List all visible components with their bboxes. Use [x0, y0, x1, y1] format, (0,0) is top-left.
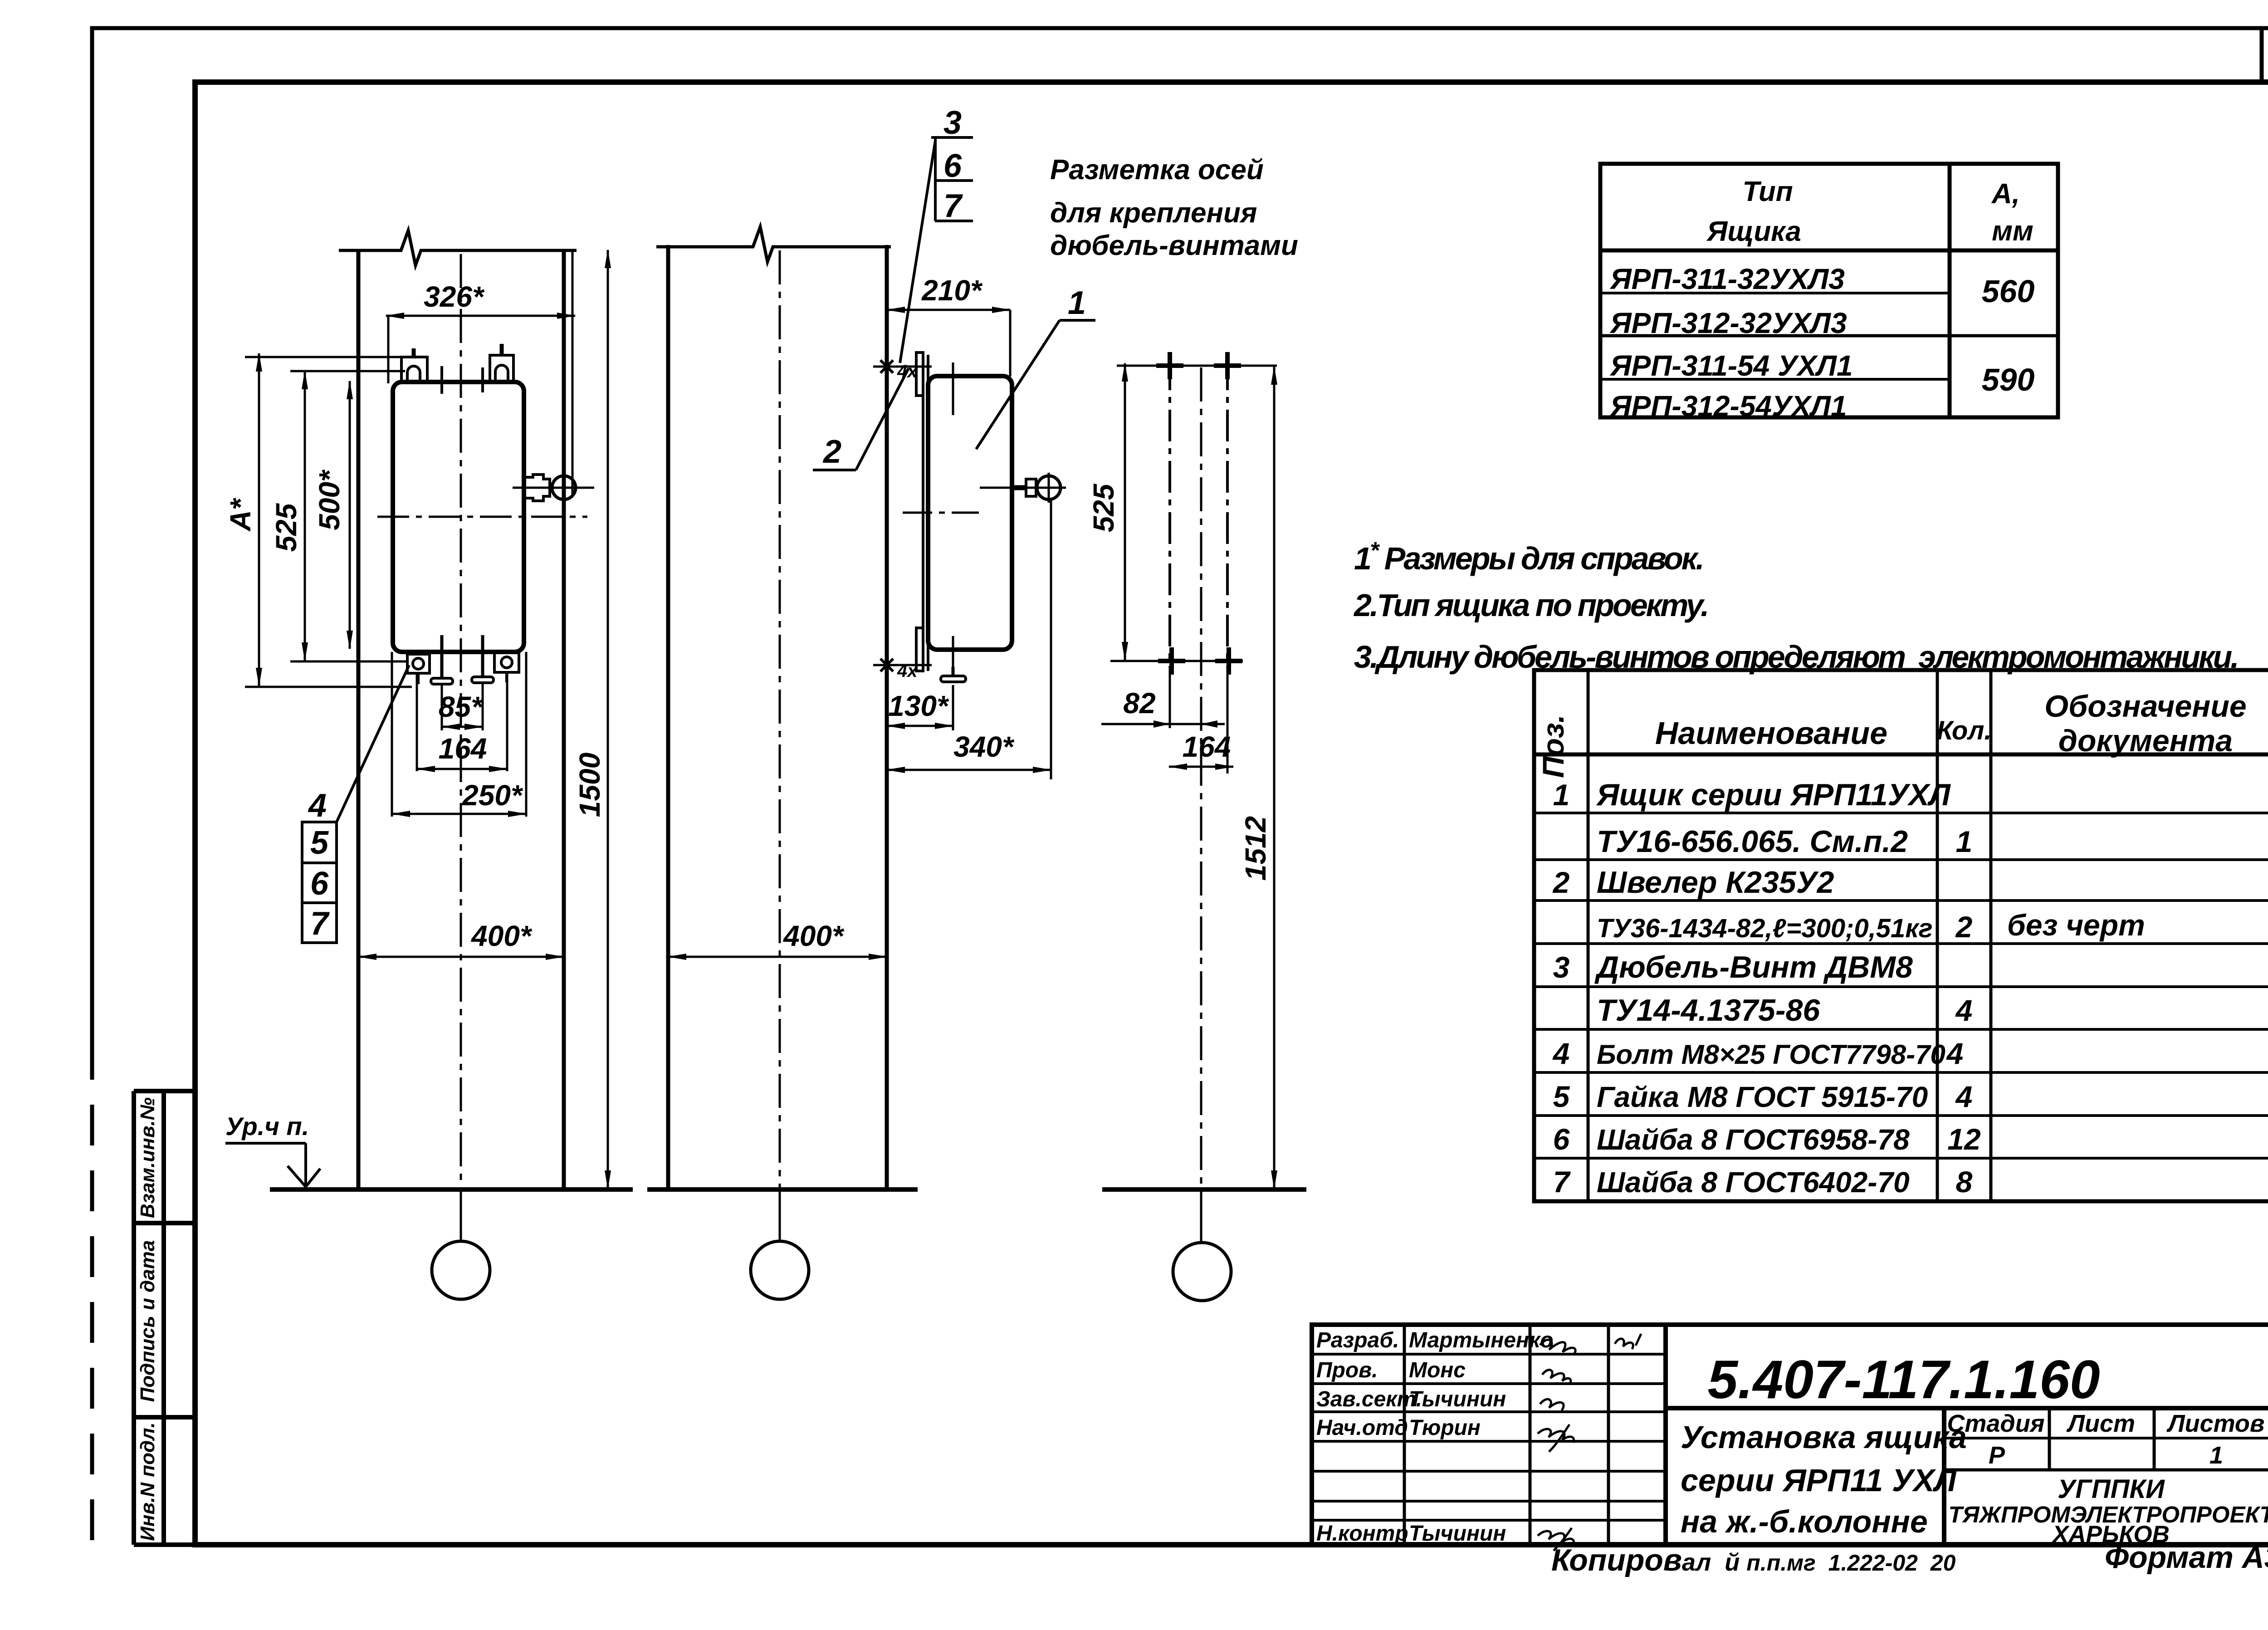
- svg-text:12: 12: [1947, 1122, 1981, 1156]
- svg-text:Подпись и дата: Подпись и дата: [137, 1240, 159, 1402]
- svg-text:3: 3: [1553, 950, 1570, 984]
- svg-text:7: 7: [943, 188, 963, 224]
- svg-text:400*: 400*: [470, 920, 533, 952]
- svg-text:2: 2: [1552, 866, 1570, 899]
- svg-text:Монс: Монс: [1409, 1358, 1466, 1382]
- svg-text:Установка ящика: Установка ящика: [1681, 1420, 1967, 1455]
- svg-text:Ящик серии ЯРП11УХЛ: Ящик серии ЯРП11УХЛ: [1596, 778, 1951, 812]
- svg-text:Листов: Листов: [2166, 1410, 2264, 1437]
- svg-text:ЯРП-311-54 УХЛ1: ЯРП-311-54 УХЛ1: [1609, 349, 1853, 382]
- svg-text:5: 5: [310, 825, 329, 861]
- svg-text:УГППКИ: УГППКИ: [2058, 1474, 2165, 1504]
- svg-text:6: 6: [1553, 1122, 1570, 1156]
- svg-text:Тюрин: Тюрин: [1409, 1416, 1481, 1440]
- svg-text:Мартыненко: Мартыненко: [1409, 1328, 1554, 1352]
- svg-text:3: 3: [943, 105, 962, 141]
- svg-text:500*: 500*: [313, 469, 346, 530]
- svg-text:Швелер К235У2: Швелер К235У2: [1597, 865, 1834, 900]
- svg-text:Нач.отд: Нач.отд: [1316, 1416, 1408, 1440]
- svg-text:Шайба 8 ГОСТ6402-70: Шайба 8 ГОСТ6402-70: [1597, 1166, 1910, 1199]
- svg-text:85*: 85*: [439, 690, 484, 723]
- svg-text:4: 4: [1955, 994, 1973, 1027]
- svg-text:Наименование: Наименование: [1655, 715, 1887, 751]
- svg-text:4: 4: [1946, 1037, 1964, 1070]
- svg-text:Н.контр: Н.контр: [1316, 1522, 1408, 1546]
- svg-text:5.407-117.1.160: 5.407-117.1.160: [1707, 1349, 2100, 1410]
- svg-text:4: 4: [1552, 1037, 1570, 1070]
- svg-text:4: 4: [308, 788, 327, 824]
- svg-text:82: 82: [1123, 687, 1155, 720]
- svg-text:Разметка осей: Разметка осей: [1050, 154, 1264, 186]
- svg-text:мм: мм: [1992, 215, 2033, 247]
- svg-text:серии ЯРП11 УХЛ: серии ЯРП11 УХЛ: [1681, 1463, 1957, 1498]
- svg-text:Копировал й п.п.мг 1.222-02: Копировал й п.п.мг 1.222-02 20: [1551, 1543, 1956, 1577]
- svg-text:ЯРП-312-32УХЛ3: ЯРП-312-32УХЛ3: [1609, 307, 1847, 339]
- svg-text:1: 1: [1553, 778, 1570, 812]
- svg-text:Тычинин: Тычинин: [1409, 1522, 1506, 1546]
- svg-text:Тычинин: Тычинин: [1409, 1387, 1506, 1411]
- svg-text:ТУ16-656.065. См.п.2: ТУ16-656.065. См.п.2: [1597, 824, 1908, 859]
- svg-text:1: 1: [1068, 285, 1086, 321]
- svg-text:326*: 326*: [424, 280, 485, 313]
- svg-text:Дюбель-Винт ДВМ8: Дюбель-Винт ДВМ8: [1594, 950, 1913, 984]
- svg-text:1* Размеры для справок.: 1* Размеры для справок.: [1354, 538, 1703, 576]
- svg-text:2: 2: [822, 434, 841, 470]
- svg-text:6: 6: [310, 866, 329, 902]
- svg-text:на ж.-б.колонне: на ж.-б.колонне: [1681, 1504, 1928, 1539]
- svg-text:Р: Р: [1989, 1442, 2005, 1469]
- svg-text:2.Тип ящика по проекту.: 2.Тип ящика по проекту.: [1353, 587, 1707, 623]
- svg-text:ТУ14-4.1375-86: ТУ14-4.1375-86: [1597, 993, 1820, 1028]
- svg-text:ТУ36-1434-82,ℓ=300;0,51кг: ТУ36-1434-82,ℓ=300;0,51кг: [1597, 914, 1933, 943]
- svg-text:Кол.: Кол.: [1936, 716, 1991, 745]
- svg-text:Гайка М8 ГОСТ 5915-70: Гайка М8 ГОСТ 5915-70: [1597, 1081, 1928, 1113]
- svg-text:документа: документа: [2058, 724, 2233, 758]
- svg-text:A*: A*: [224, 497, 257, 532]
- svg-text:210*: 210*: [921, 274, 983, 307]
- svg-text:Разраб.: Разраб.: [1316, 1328, 1399, 1352]
- svg-text:1: 1: [2209, 1442, 2223, 1469]
- svg-text:4x: 4x: [897, 661, 918, 681]
- svg-text:130*: 130*: [888, 690, 949, 722]
- svg-text:7: 7: [1553, 1165, 1571, 1199]
- svg-text:4x: 4x: [897, 362, 918, 382]
- svg-text:5: 5: [1553, 1080, 1570, 1113]
- svg-text:Зав.сект.: Зав.сект.: [1316, 1387, 1422, 1411]
- svg-text:560: 560: [1982, 274, 2035, 309]
- svg-text:Болт М8×25 ГОСТ7798-70: Болт М8×25 ГОСТ7798-70: [1597, 1039, 1945, 1070]
- svg-text:1512: 1512: [1239, 816, 1272, 881]
- svg-text:для крепления: для крепления: [1050, 197, 1257, 229]
- svg-text:Ур.ч п.: Ур.ч п.: [225, 1112, 309, 1141]
- svg-text:400*: 400*: [782, 920, 845, 952]
- svg-text:1: 1: [1956, 825, 1973, 858]
- svg-text:525: 525: [1087, 483, 1120, 532]
- svg-text:7: 7: [310, 906, 330, 942]
- svg-text:Взам.инв.№: Взам.инв.№: [137, 1097, 159, 1218]
- svg-text:Поз.: Поз.: [1536, 715, 1570, 778]
- svg-text:Шайба 8 ГОСТ6958-78: Шайба 8 ГОСТ6958-78: [1597, 1123, 1910, 1156]
- svg-text:А,: А,: [1991, 178, 2020, 210]
- svg-text:Обозначение: Обозначение: [2044, 689, 2246, 724]
- svg-text:8: 8: [1956, 1165, 1973, 1199]
- svg-text:Лист: Лист: [2066, 1410, 2135, 1437]
- svg-text:164: 164: [439, 732, 487, 765]
- svg-text:1500: 1500: [573, 753, 606, 817]
- svg-text:Ящика: Ящика: [1706, 216, 1801, 247]
- svg-text:525: 525: [270, 503, 303, 552]
- svg-text:Тип: Тип: [1742, 176, 1793, 207]
- svg-text:164: 164: [1183, 730, 1231, 763]
- svg-text:4: 4: [1955, 1080, 1973, 1113]
- svg-text:340*: 340*: [953, 730, 1015, 763]
- svg-text:590: 590: [1982, 362, 2035, 397]
- svg-text:Формат А3: Формат А3: [2105, 1540, 2268, 1575]
- svg-text:ЯРП-311-32УХЛ3: ЯРП-311-32УХЛ3: [1609, 263, 1845, 295]
- svg-text:ЯРП-312-54УХЛ1: ЯРП-312-54УХЛ1: [1609, 390, 1847, 422]
- svg-text:6: 6: [943, 148, 962, 184]
- svg-text:без черт: без черт: [2007, 908, 2145, 942]
- svg-text:дюбель-винтами: дюбель-винтами: [1050, 230, 1298, 261]
- svg-text:250*: 250*: [462, 779, 523, 812]
- svg-text:Инв.N подл.: Инв.N подл.: [137, 1422, 159, 1541]
- svg-text:Стадия: Стадия: [1947, 1410, 2044, 1437]
- svg-text:2: 2: [1955, 910, 1973, 944]
- svg-text:Пров.: Пров.: [1316, 1358, 1378, 1382]
